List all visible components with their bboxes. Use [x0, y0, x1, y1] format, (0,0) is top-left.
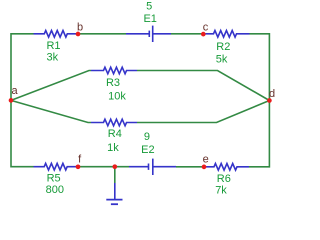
svg-text:5: 5: [146, 0, 152, 12]
resistor R6: [206, 164, 249, 171]
svg-text:R2: R2: [216, 41, 230, 53]
svg-text:c: c: [203, 21, 209, 33]
svg-text:3k: 3k: [46, 51, 58, 63]
wire node a up-diagonal to R3 row: [11, 71, 91, 101]
wire E2 to node e: [176, 166, 204, 168]
svg-text:f: f: [78, 153, 82, 165]
svg-text:b: b: [77, 22, 83, 34]
resistor R5: [34, 163, 79, 170]
resistor R4: [91, 119, 137, 126]
node e: [202, 165, 207, 170]
svg-text:R5: R5: [47, 173, 61, 185]
svg-text:1k: 1k: [107, 142, 119, 154]
svg-text:R3: R3: [106, 77, 120, 89]
battery E1: [126, 26, 171, 42]
svg-text:R6: R6: [217, 173, 231, 185]
svg-text:9: 9: [144, 131, 150, 143]
wire R2 to top-right corner and right vertical: [249, 34, 269, 167]
svg-text:R4: R4: [108, 128, 122, 140]
svg-text:E1: E1: [143, 13, 156, 25]
node c: [201, 32, 206, 37]
node a: [9, 98, 14, 103]
node b: [76, 32, 81, 37]
svg-text:R1: R1: [46, 40, 60, 52]
svg-text:d: d: [269, 88, 275, 100]
ground: [106, 183, 122, 204]
wire node a down-diagonal to R4 row: [11, 100, 91, 122]
wire node b to E1: [78, 33, 126, 35]
junction ground node: [112, 164, 117, 169]
resistor R3: [91, 67, 137, 74]
svg-text:800: 800: [46, 184, 64, 196]
wire ground stem green part: [114, 167, 116, 183]
wire R3 to node d diagonal: [137, 71, 269, 101]
svg-text:10k: 10k: [108, 90, 126, 102]
wire node f to ground junction to E2: [78, 166, 129, 168]
svg-text:7k: 7k: [215, 184, 227, 196]
svg-text:5k: 5k: [216, 53, 228, 65]
svg-text:a: a: [11, 85, 18, 97]
node d: [267, 98, 272, 103]
battery E2: [129, 159, 176, 175]
wire E1 to node c: [171, 33, 203, 35]
resistor R2: [206, 31, 250, 38]
wire top-left horizontal: [11, 34, 34, 167]
svg-text:e: e: [203, 153, 209, 165]
wire R4 to node d diagonal: [137, 101, 269, 123]
node f: [76, 164, 81, 169]
resistor R1: [34, 31, 79, 38]
svg-text:E2: E2: [141, 144, 154, 156]
